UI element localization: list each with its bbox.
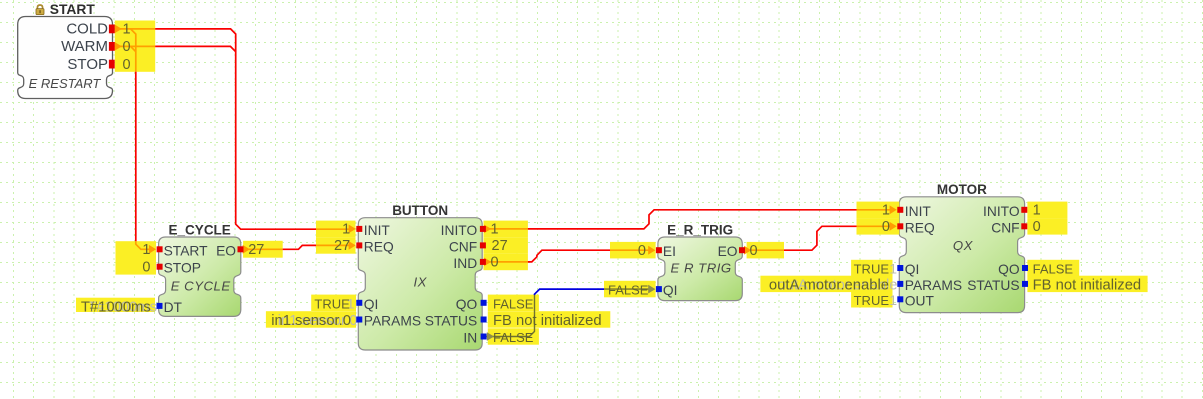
svg-text:27: 27 [334, 238, 350, 254]
svg-text:CNF: CNF [449, 239, 477, 254]
svg-text:REQ: REQ [364, 239, 394, 254]
wire START.COLD -> BUTTON.INIT (event) [113, 28, 156, 30]
pins E_R_TRIG [656, 247, 662, 253]
watch box START COLD/WARM/STOP [115, 21, 155, 72]
svg-text:QI: QI [905, 262, 920, 277]
svg-text:QO: QO [998, 262, 1020, 277]
watch box BUTTON REQ [316, 237, 356, 254]
svg-text:STATUS: STATUS [967, 278, 1019, 293]
svg-text:0: 0 [491, 255, 499, 271]
svg-text:0: 0 [123, 39, 131, 55]
arrow at BUTTON.IN [487, 332, 494, 341]
watch box BUTTON PARAMS [266, 311, 356, 328]
svg-text:0: 0 [1033, 219, 1041, 235]
svg-text:1: 1 [342, 222, 350, 238]
svg-text:IX: IX [413, 275, 427, 290]
arrow at E_CYCLE.START [149, 245, 156, 254]
arrow at START.WARM [115, 42, 122, 51]
lock icon [36, 5, 44, 15]
watch box BUTTON QI [311, 295, 356, 311]
svg-text:EI: EI [663, 244, 676, 259]
watch box MOTOR QI [851, 260, 892, 276]
svg-text:INITO: INITO [983, 204, 1020, 219]
svg-text:MOTOR: MOTOR [937, 182, 987, 197]
svg-text:CNF: CNF [991, 220, 1019, 235]
arrow at E_R_TRIG.EI [648, 246, 655, 255]
svg-text:QO: QO [456, 297, 478, 312]
watch box BUTTON IND [484, 254, 528, 271]
svg-text:FALSE: FALSE [493, 330, 534, 345]
block MOTOR (QX) [899, 197, 1024, 313]
svg-text:EO: EO [718, 244, 738, 259]
wire START.WARM -> BUTTON.INIT (event, overlapping) [113, 45, 156, 47]
svg-text:WARM: WARM [61, 38, 108, 55]
wire START.COLD -> E_CYCLE.START (event) [131, 29, 136, 72]
block BUTTON (IX) [358, 218, 482, 350]
wire BUTTON.IN -> E_R_TRIG.QI (data) [486, 295, 535, 337]
svg-text:1: 1 [123, 22, 131, 38]
wire BUTTON.IND -> E_R_TRIG.EI (event) [484, 261, 528, 263]
svg-text:QI: QI [663, 283, 678, 298]
watch box MOTOR CNF [1027, 218, 1067, 235]
svg-text:INITO: INITO [441, 223, 478, 238]
svg-text:0: 0 [142, 260, 150, 276]
svg-text:1: 1 [1033, 203, 1041, 219]
watch box E_R_TRIG EO [747, 242, 784, 259]
pins START COLD/WARM/STOP [109, 25, 115, 34]
svg-text:27: 27 [492, 238, 508, 254]
svg-text:E CYCLE: E CYCLE [171, 279, 231, 294]
svg-text:INIT: INIT [364, 223, 391, 238]
svg-text:STOP: STOP [67, 56, 108, 73]
watch box E_R_TRIG QI [604, 281, 656, 298]
arrow at BUTTON.INIT [349, 225, 356, 234]
arrow at MOTOR.REQ [890, 222, 897, 231]
svg-text:STATUS: STATUS [425, 314, 477, 329]
svg-text:COLD: COLD [66, 21, 108, 38]
wire E_R_TRIG.EO -> MOTOR.REQ (event) [744, 249, 784, 251]
svg-text:1: 1 [889, 292, 897, 308]
svg-text:1: 1 [889, 261, 897, 277]
svg-text:PARAMS: PARAMS [905, 278, 962, 293]
svg-text:DT: DT [164, 300, 183, 315]
watch box E_CYCLE START/STOP [116, 241, 157, 274]
block E_R_TRIG [658, 237, 742, 301]
svg-text:27: 27 [248, 242, 264, 258]
block START (E_RESTART) [18, 17, 113, 99]
watch box MOTOR OUT [851, 291, 892, 307]
svg-text:START: START [164, 243, 209, 258]
watch box BUTTON CNF [484, 237, 528, 254]
svg-text:1: 1 [882, 203, 890, 219]
watch box MOTOR REQ [857, 218, 900, 235]
block E_CYCLE [159, 237, 241, 316]
svg-text:FB not initialized: FB not initialized [1033, 278, 1142, 294]
watch box MOTOR STATUS [1027, 276, 1147, 292]
arrow at E_R_TRIG.EO [744, 246, 751, 255]
pins E_CYCLE [157, 246, 163, 252]
svg-text:EO: EO [216, 243, 236, 258]
watch box E_CYCLE DT [76, 298, 155, 312]
watch box BUTTON IN [488, 328, 539, 344]
watch box E_R_TRIG EI [610, 242, 656, 259]
arrow at BUTTON.IND [484, 258, 491, 267]
arrow at MOTOR.INIT [890, 205, 897, 214]
svg-text:FB not initialized: FB not initialized [493, 313, 602, 329]
svg-text:QX: QX [953, 238, 974, 253]
pins MOTOR [897, 207, 903, 213]
watch box BUTTON INIT [316, 221, 356, 238]
svg-text:IND: IND [453, 256, 477, 271]
wire BUTTON.INITO -> MOTOR.INIT (event) [484, 228, 528, 230]
svg-text:INIT: INIT [905, 204, 932, 219]
svg-text:TRUE: TRUE [854, 293, 890, 308]
svg-text:STOP: STOP [164, 261, 201, 276]
svg-text:in1.sensor.0: in1.sensor.0 [271, 313, 351, 329]
svg-text:IN: IN [463, 331, 477, 346]
watch box MOTOR INITO [1027, 202, 1067, 219]
svg-text:0: 0 [882, 219, 890, 235]
svg-text:1: 1 [142, 242, 150, 258]
svg-text:0: 0 [638, 243, 646, 259]
svg-text:E RESTART: E RESTART [29, 76, 102, 91]
svg-text:TRUE: TRUE [314, 296, 350, 311]
svg-text:T#1000ms: T#1000ms [81, 300, 151, 316]
watch box MOTOR INIT [857, 202, 900, 219]
watch box BUTTON INITO [484, 221, 528, 238]
watch box MOTOR PARAMS [760, 276, 892, 292]
svg-text:FALSE: FALSE [608, 283, 649, 298]
svg-text:OUT: OUT [905, 293, 935, 308]
watch box E_CYCLE EO [243, 241, 283, 258]
watch box BUTTON STATUS [488, 311, 611, 328]
arrow at E_R_TRIG.QI [648, 285, 655, 294]
svg-text:E_CYCLE: E_CYCLE [169, 222, 231, 237]
watch box BUTTON QO [488, 295, 539, 311]
svg-text:0: 0 [123, 57, 131, 73]
svg-text:PARAMS: PARAMS [364, 314, 421, 329]
svg-text:1: 1 [491, 222, 499, 238]
wire START.WARM -> E_CYCLE.START branch (event) [131, 46, 136, 51]
svg-text:E R TRIG: E R TRIG [671, 261, 732, 276]
arrow at START.COLD [115, 25, 122, 34]
svg-text:E_R_TRIG: E_R_TRIG [667, 223, 733, 238]
svg-text:REQ: REQ [905, 220, 935, 235]
svg-text:START: START [50, 2, 96, 17]
svg-text:TRUE: TRUE [854, 262, 890, 277]
svg-text:QI: QI [364, 297, 379, 312]
watch box MOTOR QO [1027, 260, 1079, 276]
svg-text:outA.motor.enable: outA.motor.enable [769, 278, 889, 294]
wire E_CYCLE.EO -> BUTTON.REQ (event) [242, 248, 283, 250]
arrow at BUTTON.INITO [484, 225, 491, 234]
svg-text:FALSE: FALSE [493, 296, 534, 311]
arrow at E_CYCLE.EO [243, 245, 250, 254]
pins BUTTON [356, 226, 362, 232]
arrow at BUTTON.REQ [349, 241, 356, 250]
svg-text:BUTTON: BUTTON [392, 203, 448, 218]
svg-text:FALSE: FALSE [1033, 262, 1074, 277]
svg-text:0: 0 [750, 243, 758, 259]
